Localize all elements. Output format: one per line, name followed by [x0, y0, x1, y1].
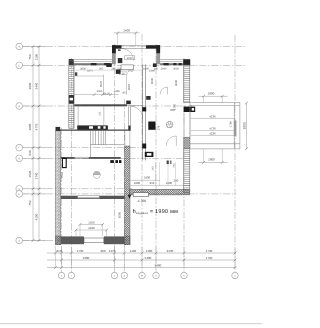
svg-text:240: 240 [152, 166, 155, 171]
svg-text:-1.700: -1.700 [137, 199, 146, 203]
black blob above H1 near V1 [126, 101, 131, 105]
stairs below step wall [90, 131, 124, 157]
svg-text:1800: 1800 [243, 122, 247, 129]
solid stubs from left circles [23, 47, 47, 241]
bump left wall [112, 45, 116, 64]
left dimension lines [33, 47, 39, 241]
black blobs on bearing wall [142, 107, 146, 111]
svg-text:4730: 4730 [206, 249, 213, 253]
svg-text:1800: 1800 [208, 158, 215, 162]
right wall upper (ladder hatch) [184, 65, 190, 102]
svg-text:Б: Б [18, 188, 20, 191]
bump right wall [156, 45, 160, 64]
svg-text:1б20: 1б20 [127, 57, 133, 60]
axis row 7 y=193.9 [23, 193, 237, 195]
axis row 1 y=46.5 [23, 46, 246, 48]
svg-text:3030: 3030 [150, 77, 154, 84]
svg-text:260: 260 [99, 67, 104, 70]
1800 dim right side vertical [243, 102, 248, 151]
svg-text:1190: 1190 [35, 53, 39, 60]
bottom dimension lines [47, 253, 236, 268]
door tag box 1б [120, 72, 128, 75]
svg-text:4750: 4750 [206, 256, 213, 260]
axis row 4 y=147.7 [23, 147, 147, 149]
svg-text:610: 610 [56, 249, 61, 253]
svg-text:2440: 2440 [35, 82, 39, 89]
svg-text:1920: 1920 [88, 221, 95, 225]
elevation marker triangle [128, 195, 132, 199]
axis grid lines [23, 34, 246, 272]
rotated interior dim texts [60, 77, 178, 178]
svg-text:2400: 2400 [134, 181, 141, 185]
black jamb piers at bump junction [106, 63, 111, 67]
svg-text:950: 950 [170, 108, 175, 112]
svg-text:407: 407 [122, 92, 127, 95]
svg-text:4736: 4736 [209, 127, 216, 131]
lower section interior wall y~197 [61, 196, 125, 199]
stair hall side lines [77, 106, 79, 125]
bottom extension verticals [56, 246, 236, 269]
right wall middle hatch segment [184, 137, 190, 149]
svg-text:Д: Д [18, 105, 20, 108]
svg-text:3030: 3030 [173, 67, 179, 70]
svg-text:750: 750 [28, 54, 32, 59]
svg-text:1780: 1780 [229, 121, 232, 127]
svg-text:950: 950 [150, 181, 155, 185]
svg-text:84,95: 84,95 [104, 92, 111, 95]
svg-text:А: А [141, 275, 143, 278]
axis col 6 x=156 [155, 44, 157, 272]
svg-text:4597: 4597 [127, 83, 131, 90]
left dim texts (rotated) [28, 53, 39, 220]
middle-right wall x~127 lower part (cross hatch) [125, 146, 130, 245]
door arc at H1 opening [131, 106, 143, 118]
axis col 4 x=124.3 [123, 99, 125, 272]
top bump (vestibule) walls [112, 45, 160, 64]
left upper wall (ladder hatch) [69, 61, 74, 129]
svg-text:3740: 3740 [35, 172, 39, 179]
svg-text:1400: 1400 [123, 28, 130, 32]
window block in left wall [69, 95, 74, 104]
thin partition line x~126.4 [125, 75, 127, 95]
right wall black pier at bump top [184, 107, 196, 112]
axis col 8 x=235 [234, 35, 236, 272]
svg-text:178: 178 [157, 125, 161, 130]
svg-text:2400: 2400 [144, 175, 151, 179]
bump door jamb lines [184, 112, 190, 137]
interior dim row y~94 [97, 90, 128, 96]
svg-text:150: 150 [98, 111, 101, 116]
svg-text:А: А [18, 240, 20, 243]
svg-text:5480: 5480 [155, 263, 162, 267]
corner block at step junction [56, 127, 61, 131]
right wall lower (ladder hatch) [184, 149, 190, 193]
svg-text:7510: 7510 [60, 171, 64, 178]
elevation box [133, 193, 148, 197]
svg-text:4775: 4775 [35, 123, 39, 130]
main top wall left part [69, 59, 157, 67]
svg-text:1485: 1485 [114, 90, 120, 93]
black door jambs below wall [110, 160, 114, 163]
axis row 6 y=188.8 [23, 188, 133, 190]
left lower wall (diagonal hatch) [56, 131, 61, 245]
window band above step wall [77, 125, 108, 129]
svg-text:4136: 4136 [209, 114, 216, 118]
thin wall lines between V1 and hatch [124, 131, 126, 146]
axis col 2 x=71.4 [70, 58, 72, 272]
bump door opening thin lines [122, 45, 147, 47]
svg-text:530: 530 [28, 150, 32, 155]
dims in right room [170, 108, 216, 136]
axis col 5 x=142 [141, 34, 143, 272]
room label circle lower (half-shaded section mark) [93, 171, 100, 178]
black door frame bar at left of lower section [62, 158, 66, 167]
axis row 2 y=65.3 [23, 64, 246, 66]
svg-text:2430: 2430 [88, 226, 95, 230]
svg-text:Е: Е [18, 64, 20, 67]
svg-text:2085: 2085 [28, 123, 32, 130]
left dim ticks [32, 45, 41, 242]
svg-text:1480: 1480 [146, 249, 153, 253]
bottom wall of building y~236-244.5 [56, 236, 131, 245]
main top wall right part [160, 59, 190, 65]
right bump-out (veranda, thin lines) [190, 103, 240, 149]
svg-text:1525: 1525 [28, 170, 32, 177]
thin partition line continuing H1 [127, 104, 143, 106]
top dim row under top wall [80, 67, 179, 72]
door jamb marks in room 1,6 south [167, 161, 169, 165]
bottom dim texts [56, 249, 212, 267]
bearing wall V2 x~144 (double thin lines) [143, 64, 146, 160]
svg-text:752: 752 [28, 200, 32, 205]
svg-text:2060: 2060 [28, 82, 32, 89]
bump top wall right black segment [146, 45, 160, 49]
axis row 8 y=240.5 [23, 240, 131, 242]
door leaf rect near bump [121, 65, 133, 70]
interior line y~76 [74, 75, 103, 77]
svg-text:2430: 2430 [167, 249, 174, 253]
lower-right bottom wall (cross hatch) y~189-195 [129, 189, 189, 195]
svg-text:В: В [18, 157, 20, 160]
interior wall V1 x~129 (double thin lines) [129, 106, 131, 126]
svg-text:3537: 3537 [99, 80, 103, 87]
svg-text:5480: 5480 [145, 256, 152, 260]
wall at y~157.5 (lower section top wall) [61, 157, 122, 163]
bottom axis circles [58, 272, 238, 278]
1800 dim top of right bump [199, 92, 228, 103]
black door jamb left of bump [116, 70, 121, 74]
svg-text:4236: 4236 [209, 132, 216, 136]
axis row 3 y=106 [23, 105, 193, 107]
interior wall H1 y~105 [73, 104, 127, 106]
svg-text:4100: 4100 [35, 213, 39, 220]
svg-text:2440: 2440 [161, 67, 167, 70]
bump top wall left black segment [112, 45, 122, 49]
svg-text:1980: 1980 [83, 256, 90, 260]
interior vertical dim line x~103.5 [103, 75, 105, 96]
svg-text:1190: 1190 [130, 249, 137, 253]
svg-text:2060: 2060 [97, 90, 103, 93]
faint dim line under top row [75, 69, 142, 71]
axis col 7 x=184 [183, 58, 185, 272]
axis col 3 x=114.5 [114, 44, 116, 272]
lower room interior dims [88, 221, 95, 231]
black fixture with white center [145, 152, 154, 157]
left axis circles [16, 43, 23, 244]
svg-text:1730: 1730 [77, 249, 84, 253]
window in right bump right wall [234, 121, 237, 137]
svg-text:3830: 3830 [80, 67, 86, 70]
svg-text:1940: 1940 [149, 70, 155, 73]
svg-text:1470: 1470 [109, 249, 116, 253]
svg-text:200: 200 [100, 249, 105, 253]
svg-text:2400: 2400 [166, 181, 173, 185]
svg-text:240: 240 [174, 178, 179, 182]
door swing arcs [122, 49, 176, 146]
top dim 1400 [114, 28, 140, 45]
axis row 5 y=158.3 [23, 157, 191, 159]
svg-text:1800: 1800 [208, 92, 215, 96]
bottom dim ticks [54, 252, 236, 269]
basement entry dims [134, 175, 179, 185]
faint page footer line [0, 323, 262, 325]
room label circle 1,6 [166, 121, 173, 128]
svg-text:3630: 3630 [174, 79, 178, 86]
1800 dim bottom of right bump [199, 149, 228, 164]
top wall right black pier [183, 59, 190, 65]
svg-text:240: 240 [111, 67, 116, 70]
axis col 1 x=61.5 [61, 128, 63, 272]
step-out wall at y~130 [56, 129, 131, 131]
small dark rect near inner face [75, 72, 77, 76]
left wall inner face line [73, 65, 75, 128]
svg-text:17,9: 17,9 [167, 125, 172, 128]
black duct box right of bearing wall [148, 122, 155, 130]
black box in bump interior [118, 58, 123, 63]
svg-text:6500: 6500 [118, 211, 122, 218]
svg-text:Б: Б [18, 193, 20, 196]
door tag box inside bump [125, 56, 135, 60]
svg-text:240: 240 [173, 163, 176, 168]
svg-text:ж: ж [123, 275, 125, 278]
svg-text:г: г [71, 275, 72, 278]
